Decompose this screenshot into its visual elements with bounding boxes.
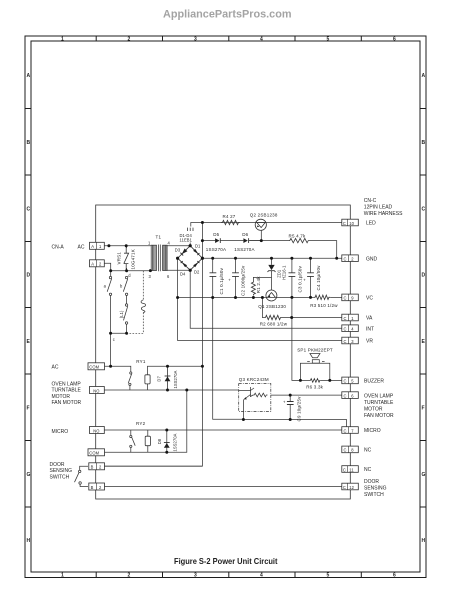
wire interlock a b feed: [111, 246, 127, 277]
relay RY2 coil: [145, 436, 150, 446]
transistor Q3 KRC243M digital transistor: [239, 384, 271, 420]
svg-text:AC: AC: [52, 365, 59, 371]
svg-text:CN-A: CN-A: [52, 244, 65, 250]
node bridge right: [201, 257, 204, 260]
svg-text:3: 3: [194, 37, 197, 43]
connector CN-C pin C11 NC: [342, 466, 359, 473]
capacitor C2: [228, 273, 239, 283]
node bridge bottom: [189, 269, 192, 272]
svg-text:1SS270A: 1SS270A: [206, 247, 226, 252]
svg-text:B: B: [91, 485, 94, 490]
node top rail / raw vertical: [201, 221, 204, 224]
mechanical linkage dashed line: [128, 271, 144, 334]
svg-text:SWITCH: SWITCH: [50, 474, 70, 480]
svg-text:NC: NC: [364, 467, 372, 473]
diode D4: [182, 262, 187, 267]
svg-text:C: C: [344, 296, 347, 301]
node bridge left: [176, 257, 179, 260]
capacitor C4: [303, 273, 314, 283]
svg-text:HZ16-1: HZ16-1: [281, 265, 286, 280]
wire VR net: bridge left vertex branch down and right to C3 pin: [178, 298, 342, 341]
svg-text:R4 27: R4 27: [223, 214, 236, 219]
wire interlock chain a lower lead: [110, 296, 112, 334]
wire RY2 COM line: [104, 451, 131, 453]
svg-text:11: 11: [349, 467, 354, 472]
svg-text:B: B: [91, 465, 94, 470]
svg-text:D4: D4: [180, 272, 186, 277]
monitor switch L1: [124, 304, 128, 324]
svg-text:TURNTABLE: TURNTABLE: [52, 388, 82, 394]
wire buzzer feed column from GND rail via C3 down to buzzer: [292, 258, 301, 380]
node Q3 output: [289, 394, 292, 397]
node raw rail RY1 coil: [201, 365, 204, 368]
resistor R6: [310, 379, 321, 383]
svg-text:MICRO: MICRO: [364, 428, 381, 434]
wire raw rail: bridge right vertex down to relay feeds and B2: [104, 258, 202, 466]
interlock switch a: [107, 276, 112, 295]
svg-text:MOTOR: MOTOR: [52, 394, 71, 400]
wire R1 column from zener node to VC rail: [253, 277, 271, 281]
connector CN-C pin C3 VR: [342, 337, 359, 344]
svg-text:C2 1000µ/25v: C2 1000µ/25v: [241, 265, 246, 296]
svg-text:BUZZER: BUZZER: [364, 379, 384, 385]
node transformer pin3: [149, 269, 152, 272]
node Q3 emitter return: [242, 418, 245, 421]
node A2 line switch a: [109, 269, 112, 272]
resistor R1: [251, 281, 255, 295]
svg-text:Q3 KRC243M: Q3 KRC243M: [239, 377, 269, 382]
wire interlock bottom tie: [111, 332, 127, 334]
svg-text:CN-C: CN-C: [364, 198, 377, 204]
node interlock bottom b: [125, 332, 128, 335]
svg-text:VRS1: VRS1: [116, 252, 121, 265]
wire transformer pin4 to bridge top vertex: [167, 245, 190, 247]
svg-text:1SS270A: 1SS270A: [173, 370, 178, 388]
svg-text:MOTOR: MOTOR: [364, 406, 383, 412]
svg-text:TURNTABLE: TURNTABLE: [364, 400, 394, 406]
svg-text:C: C: [344, 379, 347, 384]
wire transformer pin6 to bridge bottom vertex: [167, 269, 190, 271]
svg-text:G: G: [422, 472, 426, 478]
node bridge top: [189, 244, 192, 247]
svg-text:D7: D7: [157, 376, 162, 382]
wire vertical bridge right vertex to top rail and D5 rail: [201, 223, 203, 259]
connector CN-C pin C5 BUZZER: [342, 377, 359, 384]
connector CN-C pin C1 VA: [342, 314, 359, 321]
varistor VRS1: [124, 246, 129, 271]
svg-text:R2 680 1/2w: R2 680 1/2w: [260, 322, 288, 327]
svg-text:F: F: [27, 406, 30, 412]
wire Q2 base stub: [260, 230, 262, 240]
node D5 rail / raw vertical: [201, 239, 204, 242]
node VC rail C4: [309, 296, 312, 299]
svg-text:6: 6: [393, 37, 396, 43]
wire door switch B2 upper: [80, 466, 203, 470]
svg-text:C: C: [344, 327, 347, 332]
svg-text:F: F: [422, 406, 425, 412]
svg-text:3: 3: [194, 573, 197, 579]
node VC rail C2: [234, 296, 237, 299]
svg-text:R1 2.4k: R1 2.4k: [256, 276, 261, 293]
svg-text:D6: D6: [242, 232, 248, 237]
wire bridge left vertex down to VC input rail: [177, 258, 179, 297]
wire MICRO net from RY2 NO contact to C7 pin: [104, 429, 341, 431]
svg-text:H: H: [422, 538, 426, 544]
svg-text:D1: D1: [195, 244, 201, 249]
svg-text:DOOR: DOOR: [364, 479, 379, 485]
svg-text:INT: INT: [366, 326, 374, 332]
wire interlock drop from switch ab to COM: [110, 333, 112, 366]
svg-text:RY1: RY1: [136, 359, 146, 364]
svg-text:C: C: [343, 485, 346, 490]
node Q2 base: [260, 239, 263, 242]
svg-text:Figure S-2 Power Unit Circuit: Figure S-2 Power Unit Circuit: [174, 557, 278, 566]
svg-text:C: C: [344, 393, 347, 398]
node GND rail C1: [211, 257, 214, 260]
connector CN-A pin A2: [90, 260, 105, 267]
svg-text:C: C: [344, 428, 347, 433]
svg-text:SENSING: SENSING: [50, 468, 73, 474]
resistor R2: [264, 315, 282, 319]
wire VC input rail to Q1 emitter: [178, 297, 266, 299]
wire Q3 output to C6 pin: [271, 394, 342, 396]
zener diode ZD1: [268, 265, 276, 272]
svg-text:5: 5: [327, 37, 330, 43]
door sensing switch contact: [75, 470, 82, 484]
connector CN-C pin C7 MICRO: [342, 427, 359, 434]
node VC rail C3 buzzer branch: [290, 296, 293, 299]
svg-text:C: C: [344, 316, 347, 321]
svg-text:Q1 2SB1230: Q1 2SB1230: [258, 304, 286, 309]
svg-text:12PIN LEAD: 12PIN LEAD: [364, 204, 393, 210]
wire RY1 coil bottom stub: [147, 384, 149, 390]
svg-text:VA: VA: [366, 316, 373, 322]
svg-text:SENSING: SENSING: [364, 486, 387, 492]
svg-text:C: C: [422, 207, 426, 213]
wire R5 link D6 to Q2 base node: [250, 240, 262, 242]
flyback diode D8: [164, 443, 170, 448]
wire RY1 COM line: [104, 366, 131, 372]
wire CN-A A1 line to transformer pin1: [104, 245, 151, 247]
svg-text:c: c: [113, 337, 115, 342]
wire door switch B2 lower to C12 pin: [80, 484, 341, 486]
resistor R4: [221, 220, 240, 224]
node VC rail C1: [211, 296, 214, 299]
svg-text:C: C: [27, 207, 31, 213]
junction dots: [107, 221, 338, 454]
svg-text:COM: COM: [89, 365, 99, 370]
node VC rail R2 branch: [261, 296, 264, 299]
wire RY1 contact lower stub: [129, 386, 131, 391]
svg-text:FAN MOTOR: FAN MOTOR: [52, 400, 82, 406]
wire C9 column from Q3 output node: [289, 395, 291, 419]
node GND rail R5 return: [335, 257, 338, 260]
svg-text:NO: NO: [93, 428, 99, 433]
node RY2 coil bottom D8: [165, 451, 168, 454]
connector CN-C pin C8 NC: [342, 446, 359, 453]
node COM interlock drop: [109, 365, 112, 368]
svg-text:D: D: [422, 273, 426, 279]
svg-text:D5: D5: [213, 232, 219, 237]
svg-text:D: D: [27, 273, 31, 279]
wire D8 stubs: [166, 430, 168, 452]
wire CN-A A2 line down and right to transformer pin3: [104, 263, 151, 271]
connector pin NO lower: [90, 427, 105, 434]
wire VC rail Q1 collector to C9 pin: [277, 296, 342, 298]
node A1 line switch feed: [107, 244, 110, 247]
svg-text:COM: COM: [89, 451, 99, 456]
wire C2 column: [235, 258, 237, 297]
connector pin B2 lower: [89, 483, 105, 490]
svg-text:H: H: [27, 538, 31, 544]
svg-text:OVEN LAMP: OVEN LAMP: [52, 381, 82, 387]
connector CN-C pin C10 LED: [342, 219, 359, 226]
node VA buzzer branch: [290, 316, 293, 319]
svg-text:C: C: [343, 467, 346, 472]
svg-text:A: A: [91, 244, 94, 249]
svg-text:GND: GND: [366, 256, 378, 262]
svg-text:C: C: [344, 448, 347, 453]
node interlock bottom a: [109, 332, 112, 335]
diode D5: [215, 238, 220, 243]
svg-text:C4 10µ/50v: C4 10µ/50v: [316, 265, 321, 291]
diode bridge D1-D4 11EB1: [178, 246, 203, 271]
svg-text:R6 3.3k: R6 3.3k: [306, 384, 323, 389]
connector pin NO upper: [90, 387, 105, 394]
svg-text:D3: D3: [175, 247, 181, 252]
svg-text:10G471K: 10G471K: [130, 249, 135, 269]
node buzzer left: [299, 379, 302, 382]
svg-text:DOOR: DOOR: [50, 462, 65, 468]
bridge top lead marks: [187, 228, 193, 231]
svg-text:AppliancePartsPros.com: AppliancePartsPros.com: [163, 9, 292, 21]
svg-text:C1 0.1µ/50v: C1 0.1µ/50v: [219, 267, 224, 294]
svg-text:A: A: [27, 73, 31, 79]
svg-text:C: C: [343, 221, 346, 226]
wire top rail from bridge top to LED pin: [191, 223, 342, 227]
diode D1: [193, 249, 198, 254]
svg-text:D8: D8: [157, 438, 162, 444]
connector CN-C pin C4 INT: [342, 325, 359, 332]
svg-text:C: C: [344, 339, 347, 344]
resistor R5: [288, 238, 310, 242]
svg-text:T1: T1: [156, 235, 162, 240]
svg-text:Q2 2SB1238: Q2 2SB1238: [250, 212, 278, 217]
svg-text:1SS270A: 1SS270A: [173, 433, 178, 451]
flyback diode D7: [165, 366, 171, 390]
svg-text:A: A: [422, 73, 426, 79]
svg-text:1: 1: [61, 573, 64, 579]
node RY1 coil return: [185, 389, 188, 392]
buzzer SP1 PKM22EPT: [300, 354, 341, 381]
svg-text:10: 10: [349, 221, 354, 226]
connector CN-C pin C9 VC: [342, 294, 359, 301]
connector CN-C pin C12 DOOR: [342, 483, 359, 490]
svg-text:(L1): (L1): [119, 310, 124, 318]
relay RY1 coil: [145, 375, 150, 384]
svg-text:OVEN LAMP: OVEN LAMP: [364, 393, 394, 399]
node A1 line varistor top: [125, 244, 128, 247]
node RY2 coil top D8: [165, 429, 168, 432]
svg-text:R3 510 1/2w: R3 510 1/2w: [310, 303, 338, 308]
svg-text:2: 2: [128, 37, 131, 43]
interlock switch b: [123, 276, 128, 295]
wire RY2 coil bracket: [147, 430, 149, 452]
transistor Q2: [255, 219, 266, 230]
svg-text:1: 1: [61, 37, 64, 43]
svg-text:G: G: [27, 472, 31, 478]
node GND rail C4: [309, 257, 312, 260]
wire GND rail bridge right vertex to C2 pin: [202, 257, 341, 259]
diode D3: [182, 249, 188, 255]
connector CN-C pin C2 GND: [342, 255, 359, 262]
node GND rail C2: [234, 257, 237, 260]
svg-text:C3 0.1µ/50v: C3 0.1µ/50v: [297, 265, 302, 292]
svg-text:NC: NC: [364, 448, 372, 454]
svg-text:C: C: [344, 257, 347, 262]
diode D6: [243, 238, 248, 243]
linkage spring symbol: [141, 300, 146, 313]
svg-text:6: 6: [393, 573, 396, 579]
svg-text:2: 2: [128, 573, 131, 579]
svg-text:MICRO: MICRO: [52, 429, 69, 435]
node VC rail R1: [252, 296, 255, 299]
relay RY1 contact: [128, 372, 132, 386]
svg-text:A: A: [91, 262, 94, 267]
svg-text:B: B: [422, 140, 426, 146]
svg-text:5: 5: [327, 573, 330, 579]
wire INT net: bridge bottom vertex down and right to C4 pin: [190, 270, 341, 328]
connector pin COM lower: [88, 449, 105, 456]
svg-text:D2: D2: [194, 270, 200, 275]
PCB outline box: [96, 205, 351, 499]
wire VA net: R2 branch to C1 pin: [262, 298, 341, 318]
wire RY2 NO contact upper stub: [130, 430, 132, 435]
connector CN-C pin C6 OVEN LAMP: [342, 392, 359, 399]
wire C1/C2 ground column long drop to Q3 emitter return: [213, 258, 290, 419]
connector pin B2 upper: [89, 463, 105, 470]
relay RY2 contact: [130, 435, 136, 447]
svg-text:B: B: [27, 140, 31, 146]
svg-text:C9 10µ/25v: C9 10µ/25v: [296, 396, 301, 422]
capacitor C3: [289, 273, 296, 277]
node C9 return: [289, 418, 292, 421]
wire C4 column: [310, 258, 312, 297]
node buzzer right: [328, 379, 331, 382]
svg-text:WIRE HARNESS: WIRE HARNESS: [364, 211, 403, 217]
svg-text:1SS270A: 1SS270A: [234, 247, 254, 252]
svg-text:SWITCH: SWITCH: [364, 492, 384, 498]
svg-text:FAN MOTOR: FAN MOTOR: [364, 413, 394, 419]
connector pin COM upper: [88, 363, 105, 370]
svg-text:12: 12: [349, 485, 354, 490]
transistor Q1: [266, 290, 277, 301]
node RY1 coil bottom D7: [166, 389, 169, 392]
connector CN-A pin A1: [90, 242, 105, 249]
node A2 line varistor bottom: [125, 269, 128, 272]
svg-text:LED: LED: [366, 221, 376, 227]
wire RY1 NO line to Q3 base: [104, 389, 238, 391]
capacitor C9: [283, 399, 294, 404]
wire Q3/C9 return corner to MICRO pin column: [290, 420, 346, 431]
wire ZD1 column from GND rail to Q1 base: [271, 258, 273, 290]
svg-text:RY2: RY2: [136, 421, 146, 426]
svg-text:SP1 PKM22EPT: SP1 PKM22EPT: [297, 347, 333, 352]
svg-text:4: 4: [260, 37, 263, 43]
node GND rail ZD1: [270, 257, 273, 260]
svg-text:4: 4: [260, 573, 263, 579]
node GND rail C3: [290, 257, 293, 260]
transformer T1: [151, 245, 167, 272]
resistor R3: [314, 295, 330, 299]
wire RY1 coil return drop to RY2 COM: [131, 390, 187, 452]
svg-text:NO: NO: [93, 388, 99, 393]
wire RY1 coil top segment to raw rail: [148, 366, 203, 375]
svg-text:R5 4.7k: R5 4.7k: [289, 234, 306, 239]
wire bridge top vertex stub: [189, 243, 191, 246]
wire interlock chain b mid and lower leads: [126, 296, 128, 334]
wire D5/D6 base-drive rail: [202, 241, 336, 259]
node RY1 coil top D7: [166, 365, 169, 368]
svg-text:11EB1: 11EB1: [180, 238, 193, 243]
svg-text:VR: VR: [366, 339, 373, 345]
capacitor C1: [210, 273, 217, 277]
diode D2: [193, 262, 198, 267]
node VC input rail bridge branch: [176, 296, 179, 299]
svg-text:AC: AC: [78, 244, 85, 250]
svg-text:VC: VC: [366, 296, 373, 302]
